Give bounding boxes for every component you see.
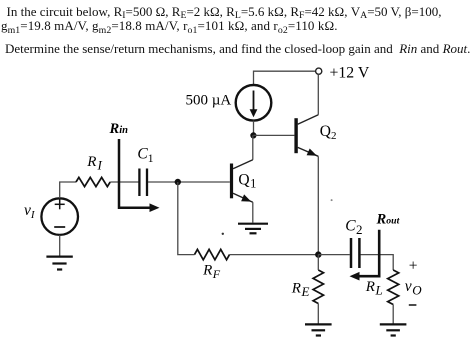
wire RI to C1 xyxy=(110,181,138,183)
resistor RF xyxy=(195,249,230,259)
svg-text:500 µA: 500 µA xyxy=(186,93,232,109)
Rout measurement arrow xyxy=(350,230,380,281)
stray dot artifact xyxy=(222,233,224,235)
svg-text:RL: RL xyxy=(365,279,383,298)
resistor RL xyxy=(388,270,399,305)
svg-text:Rin: Rin xyxy=(109,121,129,137)
wire RE to ground xyxy=(317,304,319,325)
ground under RL xyxy=(380,324,407,335)
current source I1 500uA xyxy=(236,85,272,121)
svg-text:RF: RF xyxy=(202,263,221,281)
ground under Q1 xyxy=(238,224,268,234)
capacitor C2 xyxy=(351,238,359,268)
resistor RI xyxy=(76,177,110,186)
wire top rail to +12V xyxy=(254,71,316,85)
paragraph line 3 xyxy=(5,42,470,56)
wire Q1 emitter to ground xyxy=(252,202,254,222)
svg-text:Q2: Q2 xyxy=(320,123,337,142)
wire node C down to RF xyxy=(178,182,195,255)
svg-text:C1: C1 xyxy=(137,146,153,165)
svg-text:Rout: Rout xyxy=(376,211,400,227)
wire Q2 collector to +12V xyxy=(317,74,319,114)
capacitor C1 xyxy=(139,169,147,197)
paragraph line 1 xyxy=(7,5,442,19)
svg-text:RI: RI xyxy=(86,154,102,173)
wire node B to C2 xyxy=(318,254,350,256)
stray dot artifact 2 xyxy=(331,199,333,201)
wire C1 to node C xyxy=(148,181,230,183)
wire current source to node A xyxy=(253,121,255,136)
wire C2 to RL xyxy=(361,255,394,270)
wire RF to node B xyxy=(230,254,319,256)
wire node A down to Q1 collector xyxy=(252,135,254,159)
transistor Q2 xyxy=(296,115,318,157)
Rin measurement arrow xyxy=(119,139,160,212)
ground under RE xyxy=(305,324,332,335)
ground under vI xyxy=(46,257,72,270)
node A junction dot xyxy=(250,132,256,138)
voltage source vI xyxy=(41,198,78,235)
svg-text:+: + xyxy=(409,258,418,275)
svg-text:vI: vI xyxy=(24,202,36,221)
wire node A to Q2 base xyxy=(253,134,294,136)
wire vI bottom to ground xyxy=(59,235,61,257)
svg-text:RE: RE xyxy=(291,280,310,299)
wire RL to ground xyxy=(392,305,394,325)
+12 V terminal xyxy=(316,68,322,74)
svg-text:Q1: Q1 xyxy=(238,171,256,190)
svg-text:vO: vO xyxy=(405,278,422,298)
svg-text:C2: C2 xyxy=(345,218,362,238)
node C junction dot xyxy=(175,179,181,185)
transistor Q1 xyxy=(232,160,253,202)
wire vI top to RI xyxy=(60,182,76,198)
wire node B to RE top xyxy=(317,255,319,270)
node B junction dot xyxy=(315,251,321,257)
resistor RE xyxy=(313,270,323,304)
paragraph line 2 xyxy=(1,19,338,33)
wire Q2 emitter down to node B xyxy=(317,156,319,254)
svg-text:+12 V: +12 V xyxy=(330,64,370,81)
vO minus sign xyxy=(409,304,417,306)
